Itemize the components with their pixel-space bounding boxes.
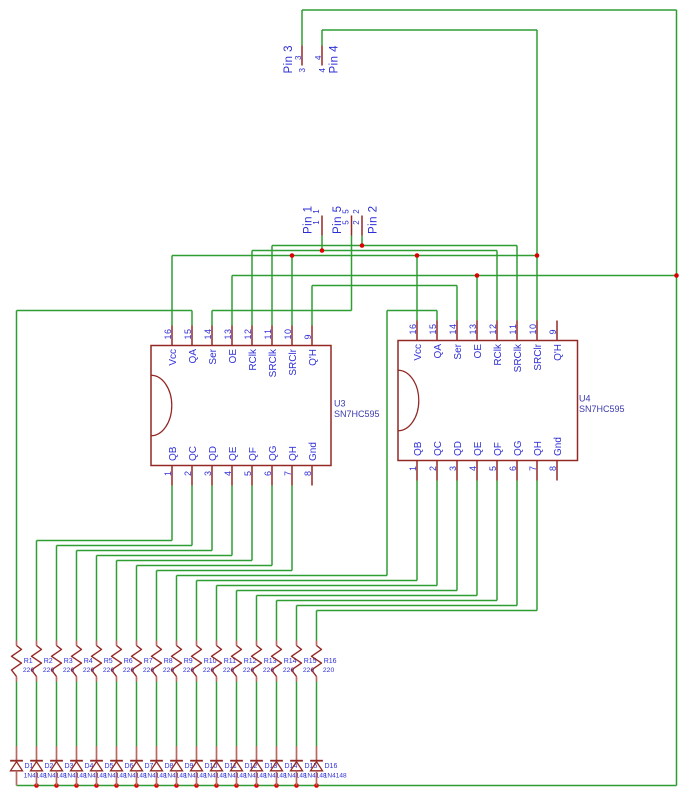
wire QH-Ser rail — [312, 285, 457, 287]
wire col8 vertical — [156, 571, 158, 641]
junction bus col6 — [114, 783, 119, 788]
resistor R1 — [12, 641, 35, 682]
wire U3 QC drop — [191, 486, 193, 546]
svg-text:220: 220 — [283, 667, 295, 674]
svg-text:6: 6 — [508, 466, 518, 471]
wire U3 QH rung — [157, 570, 293, 572]
svg-text:Pin 2: Pin 2 — [368, 206, 380, 234]
svg-text:5: 5 — [488, 466, 498, 471]
wire U4 QH rung — [317, 610, 538, 612]
wire U3 QF rung — [117, 560, 253, 562]
svg-text:220: 220 — [243, 667, 255, 674]
svg-text:6: 6 — [263, 471, 273, 476]
svg-text:R9: R9 — [184, 658, 193, 665]
wire Vcc rail — [172, 255, 537, 257]
junction bus col15 — [294, 783, 299, 788]
svg-text:QH: QH — [288, 446, 299, 461]
wire R7-D7 link — [136, 682, 138, 747]
wire U4 QD drop — [456, 481, 458, 591]
wire R3-D3 link — [56, 682, 58, 747]
wire U3 SRClr riser — [291, 256, 293, 326]
pin stub Pin 1 — [321, 216, 323, 236]
svg-text:R7: R7 — [144, 658, 153, 665]
IC U4 SN7HC595 — [398, 321, 625, 481]
resistor R15 — [292, 641, 317, 682]
wire col6 vertical — [116, 561, 118, 641]
svg-text:Pin 4: Pin 4 — [328, 45, 340, 74]
svg-text:2: 2 — [428, 466, 438, 471]
svg-text:Q'H: Q'H — [553, 344, 564, 361]
svg-text:220: 220 — [83, 667, 95, 674]
diode D5 — [90, 746, 127, 786]
svg-text:16: 16 — [408, 324, 418, 335]
wire U4 SRClk riser — [516, 246, 518, 321]
connector Pin 5 — [332, 206, 351, 236]
wire U4 QA long drop — [386, 311, 388, 576]
pin 6 of U4 — [516, 461, 518, 481]
diode D11 — [210, 746, 247, 786]
wire U4 OE riser — [476, 276, 478, 321]
svg-text:14: 14 — [203, 329, 213, 340]
junction bus col4 — [74, 783, 79, 788]
IC U3 SN7HC595 — [151, 326, 380, 486]
pin 12 of U3 — [251, 326, 253, 346]
svg-text:QC: QC — [433, 441, 444, 456]
pin 14 of U4 — [456, 321, 458, 341]
diode D8 — [150, 746, 187, 786]
wire U4 QG drop — [516, 481, 518, 606]
junction bus col14 — [274, 783, 279, 788]
svg-text:QG: QG — [513, 440, 524, 456]
wire U3 QE rung — [97, 555, 233, 557]
svg-text:3: 3 — [203, 471, 213, 476]
pin 4 of U3 — [231, 466, 233, 486]
diode D10 — [190, 746, 227, 786]
svg-text:14: 14 — [448, 324, 458, 335]
resistor R11 — [212, 641, 237, 682]
resistor R10 — [192, 641, 217, 682]
svg-text:OE: OE — [473, 344, 484, 359]
junction Pin2/SRClk — [360, 243, 365, 248]
svg-text:2: 2 — [352, 220, 361, 225]
svg-text:R8: R8 — [164, 658, 173, 665]
svg-text:QC: QC — [188, 446, 199, 461]
pin 1 of U4 — [416, 461, 418, 481]
wire R9-D9 link — [176, 682, 178, 747]
svg-text:Q'H: Q'H — [308, 349, 319, 366]
connector Pin 1 — [303, 206, 322, 236]
wire col9 vertical — [176, 576, 178, 641]
wire U3 QE drop — [231, 486, 233, 556]
resistor R8 — [152, 641, 175, 682]
pin stub Pin 3 — [301, 46, 303, 66]
pin 12 of U4 — [496, 321, 498, 341]
svg-text:R16: R16 — [324, 658, 337, 665]
svg-text:220: 220 — [63, 667, 75, 674]
junction bus col5 — [94, 783, 99, 788]
resistor R6 — [112, 641, 135, 682]
junction bus col13 — [254, 783, 259, 788]
junction bus col7 — [134, 783, 139, 788]
junction bus col11 — [214, 783, 219, 788]
svg-text:R5: R5 — [104, 658, 113, 665]
resistor R12 — [232, 641, 257, 682]
svg-text:SRClr: SRClr — [288, 348, 299, 375]
svg-text:3: 3 — [298, 68, 307, 73]
wire col12 vertical — [236, 591, 238, 641]
wire U4 QH drop — [536, 481, 538, 611]
svg-text:QH: QH — [533, 441, 544, 456]
pin 8 of U4 — [556, 461, 558, 481]
svg-text:1N4148: 1N4148 — [324, 773, 347, 780]
pin 15 of U4 — [436, 321, 438, 341]
wire U4 RClk riser — [496, 251, 498, 321]
wire Pin5 drop — [351, 236, 353, 311]
wire U3 Ser riser — [211, 311, 213, 326]
resistor R14 — [272, 641, 297, 682]
wire U3 QB rung — [37, 540, 173, 542]
wire R1-D1 link — [16, 682, 18, 747]
wire Pin4 horizontal — [322, 29, 537, 31]
junction bus col2 — [34, 783, 39, 788]
svg-text:QD: QD — [208, 446, 219, 461]
wire U3 Vcc riser — [171, 256, 173, 326]
svg-text:220: 220 — [183, 667, 195, 674]
wire Pin3 top horizontal — [302, 9, 677, 11]
pin 2 of U4 — [436, 461, 438, 481]
notch U4 — [398, 370, 419, 431]
connector Pin 3 — [283, 46, 307, 74]
wire U4 QC rung — [217, 585, 438, 587]
wire col7 vertical — [136, 566, 138, 641]
wire Pin3 up — [301, 10, 303, 46]
junction bus col3 — [54, 783, 59, 788]
svg-text:Ser: Ser — [208, 348, 219, 364]
svg-text:R4: R4 — [84, 658, 93, 665]
svg-text:Gnd: Gnd — [308, 442, 319, 461]
svg-text:3: 3 — [294, 55, 303, 60]
pin 9 of U4 — [556, 321, 558, 341]
resistor R5 — [92, 641, 115, 682]
wire Pin4 up — [321, 30, 323, 46]
wire Pin2 drop — [361, 236, 363, 246]
svg-text:220: 220 — [223, 667, 235, 674]
svg-text:15: 15 — [183, 329, 193, 340]
resistor R16 — [312, 641, 337, 682]
svg-text:SRClr: SRClr — [533, 343, 544, 370]
diode D15 — [290, 746, 327, 786]
svg-text:R6: R6 — [124, 658, 133, 665]
pin 11 of U3 — [271, 326, 273, 346]
svg-text:U4: U4 — [579, 394, 591, 404]
svg-text:7: 7 — [528, 466, 538, 471]
junction U4 OE — [475, 273, 480, 278]
svg-text:QB: QB — [413, 441, 424, 456]
junction bus col8 — [154, 783, 159, 788]
wire col3 vertical — [56, 546, 58, 641]
pin 8 of U3 — [311, 466, 313, 486]
svg-text:4: 4 — [223, 471, 233, 476]
pin 10 of U4 — [536, 321, 538, 341]
svg-text:D16: D16 — [325, 763, 338, 770]
svg-text:220: 220 — [203, 667, 215, 674]
wire col10 vertical — [196, 581, 198, 641]
svg-text:12: 12 — [243, 329, 253, 340]
wire U3 QG rung — [137, 565, 273, 567]
wire U3 QB drop — [171, 486, 173, 541]
svg-text:11: 11 — [508, 324, 518, 335]
diode D1 — [10, 746, 47, 786]
wire col1 vertical — [16, 311, 18, 641]
svg-text:4: 4 — [318, 68, 327, 73]
svg-text:11: 11 — [263, 329, 273, 340]
svg-text:9: 9 — [548, 329, 558, 334]
wire R14-D14 link — [276, 682, 278, 747]
wire col16 vertical — [316, 611, 318, 641]
pin 10 of U3 — [291, 326, 293, 346]
wire R8-D8 link — [156, 682, 158, 747]
svg-text:7: 7 — [283, 471, 293, 476]
junction U4 Vcc — [415, 253, 420, 258]
wire U3 QH drop — [291, 486, 293, 571]
svg-text:Vcc: Vcc — [168, 349, 179, 366]
svg-text:13: 13 — [223, 329, 233, 340]
pin 5 of U4 — [496, 461, 498, 481]
svg-text:QE: QE — [473, 441, 484, 456]
pin 6 of U3 — [271, 466, 273, 486]
diode D13 — [250, 746, 287, 786]
svg-text:QF: QF — [493, 442, 504, 456]
svg-text:SRClk: SRClk — [513, 343, 524, 372]
svg-text:1: 1 — [163, 471, 173, 476]
pin 7 of U3 — [291, 466, 293, 486]
svg-text:QB: QB — [168, 446, 179, 461]
svg-text:U3: U3 — [334, 399, 346, 409]
diode D4 — [70, 746, 107, 786]
pin 2 of U3 — [191, 466, 193, 486]
junction Pin1/RClk — [320, 248, 325, 253]
junction Pin4/Vcc — [535, 253, 540, 258]
svg-text:R1: R1 — [24, 658, 33, 665]
svg-text:220: 220 — [43, 667, 55, 674]
wire col11 vertical — [216, 586, 218, 641]
svg-text:QF: QF — [248, 447, 259, 461]
resistor R13 — [252, 641, 277, 682]
connector Pin 2 — [352, 206, 380, 236]
resistor R2 — [32, 641, 55, 682]
wire R11-D11 link — [216, 682, 218, 747]
pin 14 of U3 — [211, 326, 213, 346]
wire QA rail — [17, 310, 193, 312]
wire U4 QE drop — [476, 481, 478, 596]
svg-text:QD: QD — [453, 441, 464, 456]
diode D12 — [230, 746, 267, 786]
diode D3 — [50, 746, 87, 786]
junction U3 SRClr/Vcc — [290, 253, 295, 258]
pin 7 of U4 — [536, 461, 538, 481]
pin stub Pin 2 — [361, 216, 363, 236]
pin 3 of U3 — [211, 466, 213, 486]
wire U4 QB rung — [197, 580, 418, 582]
svg-text:15: 15 — [428, 324, 438, 335]
svg-text:4: 4 — [314, 55, 323, 60]
svg-text:3: 3 — [448, 466, 458, 471]
svg-text:1: 1 — [408, 466, 418, 471]
svg-text:9: 9 — [303, 334, 313, 339]
wire R5-D5 link — [96, 682, 98, 747]
svg-text:QE: QE — [228, 446, 239, 461]
pin 5 of U3 — [251, 466, 253, 486]
svg-text:220: 220 — [123, 667, 135, 674]
svg-text:R11: R11 — [224, 658, 236, 665]
pin 13 of U4 — [476, 321, 478, 341]
wire U4 QG rung — [297, 605, 518, 607]
svg-text:220: 220 — [143, 667, 155, 674]
wire col15 vertical — [296, 606, 298, 641]
svg-text:OE: OE — [228, 349, 239, 364]
pin 9 of U3 — [311, 326, 313, 346]
junction bus col9 — [174, 783, 179, 788]
connector Pin 4 — [314, 45, 340, 74]
svg-text:10: 10 — [283, 329, 293, 340]
pin stub Pin 4 — [321, 46, 323, 66]
wire U3 QG drop — [271, 486, 273, 566]
resistor R9 — [172, 641, 195, 682]
wire U3 RClk riser — [251, 251, 253, 326]
svg-text:Pin 5: Pin 5 — [332, 206, 344, 234]
wire U3 QF drop — [251, 486, 253, 561]
pin 13 of U3 — [231, 326, 233, 346]
wire R13-D13 link — [256, 682, 258, 747]
wire col14 vertical — [276, 601, 278, 641]
wire diode common bus — [17, 785, 677, 787]
svg-text:R3: R3 — [64, 658, 73, 665]
svg-text:8: 8 — [303, 471, 313, 476]
svg-text:R2: R2 — [44, 658, 53, 665]
svg-text:RClk: RClk — [493, 343, 504, 366]
wire U4 QF rung — [277, 600, 498, 602]
wire U3 QD rung — [77, 550, 213, 552]
wire U4 QB drop — [416, 481, 418, 581]
pin 15 of U3 — [191, 326, 193, 346]
svg-text:QG: QG — [268, 445, 279, 461]
wire U4 QA riser — [436, 311, 438, 321]
wire U3 QD drop — [211, 486, 213, 551]
svg-text:220: 220 — [323, 667, 335, 674]
wire Pin1 drop — [321, 236, 323, 251]
pin 16 of U3 — [171, 326, 173, 346]
wire Ser rail — [212, 310, 352, 312]
wire col2 vertical — [36, 541, 38, 641]
svg-text:Ser: Ser — [453, 343, 464, 359]
wire R12-D12 link — [236, 682, 238, 747]
wire Pin3 right vertical — [676, 10, 678, 786]
svg-text:10: 10 — [528, 324, 538, 335]
wire U4 QA rung — [177, 575, 388, 577]
junction bus col16 — [314, 783, 319, 788]
svg-text:220: 220 — [103, 667, 115, 674]
wire U4 QF drop — [496, 481, 498, 601]
wire U4 QE rung — [257, 595, 478, 597]
wire R16-D16 link — [316, 682, 318, 747]
pin stub Pin 5 — [351, 216, 353, 236]
diode D6 — [110, 746, 147, 786]
svg-text:16: 16 — [163, 329, 173, 340]
svg-text:QA: QA — [188, 349, 199, 364]
svg-text:8: 8 — [548, 466, 558, 471]
pin 16 of U4 — [416, 321, 418, 341]
wire U4 QA rail — [387, 310, 437, 312]
svg-text:QA: QA — [433, 344, 444, 359]
svg-text:SRClk: SRClk — [268, 348, 279, 377]
junction OE/Pin3 — [674, 273, 679, 278]
wire col4 vertical — [76, 551, 78, 641]
wire U4 QC drop — [436, 481, 438, 586]
wire U4 Ser riser — [456, 286, 458, 321]
svg-text:220: 220 — [263, 667, 275, 674]
diode D14 — [270, 746, 307, 786]
wire OE rail — [232, 275, 677, 277]
svg-text:4: 4 — [468, 466, 478, 471]
svg-text:13: 13 — [468, 324, 478, 335]
diode D9 — [170, 746, 207, 786]
wire U3 SRClk riser — [271, 246, 273, 326]
junction bus col12 — [234, 783, 239, 788]
junction bus col10 — [194, 783, 199, 788]
pin 11 of U4 — [516, 321, 518, 341]
diode D16 — [310, 746, 347, 786]
wire U3 QA riser — [191, 311, 193, 326]
wire RClk rail — [252, 250, 497, 252]
svg-text:Vcc: Vcc — [413, 344, 424, 361]
wire SRClk rail — [272, 245, 517, 247]
svg-text:Gnd: Gnd — [553, 437, 564, 456]
wire R15-D15 link — [296, 682, 298, 747]
wire U3 OE riser — [231, 276, 233, 326]
wire U4 QD rung — [237, 590, 458, 592]
pin 3 of U4 — [456, 461, 458, 481]
wire col13 vertical — [256, 596, 258, 641]
wire U4 Vcc riser — [416, 256, 418, 321]
svg-text:Pin 3: Pin 3 — [283, 46, 295, 74]
svg-text:RClk: RClk — [248, 348, 259, 371]
resistor R3 — [52, 641, 75, 682]
diode D7 — [130, 746, 167, 786]
svg-text:220: 220 — [23, 667, 35, 674]
resistor R4 — [72, 641, 95, 682]
pin 4 of U4 — [476, 461, 478, 481]
wire R4-D4 link — [76, 682, 78, 747]
wire R2-D2 link — [36, 682, 38, 747]
wire R10-D10 link — [196, 682, 198, 747]
svg-text:12: 12 — [488, 324, 498, 335]
wire U3 QH riser — [311, 286, 313, 326]
resistor R7 — [132, 641, 155, 682]
svg-text:SN7HC595: SN7HC595 — [334, 409, 380, 419]
svg-text:220: 220 — [163, 667, 175, 674]
svg-text:Pin 1: Pin 1 — [303, 206, 315, 234]
svg-text:SN7HC595: SN7HC595 — [579, 404, 625, 414]
svg-text:2: 2 — [352, 209, 361, 214]
diode D2 — [30, 746, 67, 786]
svg-text:2: 2 — [183, 471, 193, 476]
notch U3 — [151, 375, 172, 436]
wire Pin4 down to U4 SRClr — [536, 30, 538, 321]
svg-text:220: 220 — [303, 667, 315, 674]
svg-text:5: 5 — [243, 471, 253, 476]
pin 1 of U3 — [171, 466, 173, 486]
wire U3 QC rung — [57, 545, 193, 547]
